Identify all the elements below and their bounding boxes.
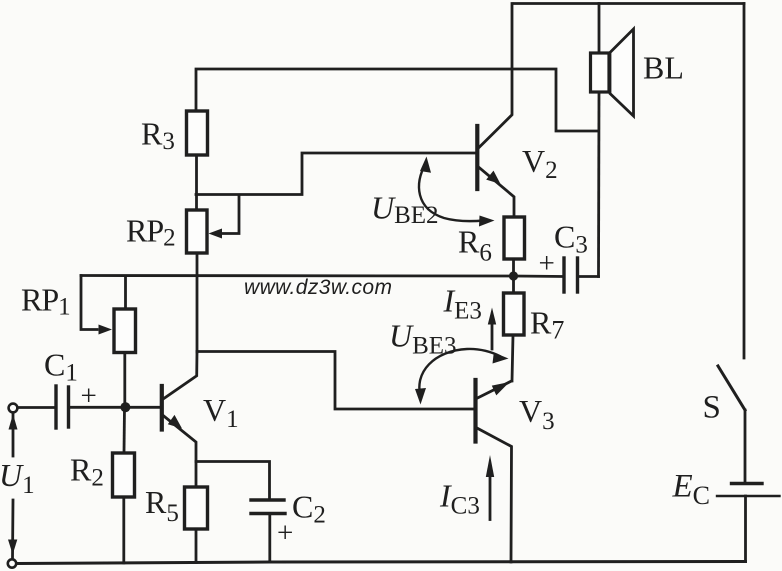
- svg-text:+: +: [539, 248, 555, 280]
- arc arrow UBE3 bottom: [415, 388, 426, 405]
- svg-text:U1: U1: [0, 457, 35, 499]
- wire C2 bottom to rail: [268, 514, 271, 562]
- wire bottom ground rail: [17, 562, 746, 564]
- svg-text:EC: EC: [672, 469, 711, 511]
- wire speaker top stub: [598, 4, 601, 54]
- svg-text:BL: BL: [643, 50, 684, 86]
- svg-text:UBE3: UBE3: [389, 318, 457, 360]
- wire long mid rail RP1 to C3: [81, 276, 563, 277]
- node dot R6 R7 C3: [509, 271, 518, 280]
- svg-text:R6: R6: [458, 224, 492, 267]
- arc arrow UBE2 right: [479, 216, 495, 227]
- svg-text:UBE2: UBE2: [371, 190, 439, 230]
- svg-text:C3: C3: [554, 219, 588, 259]
- transistor V1 collector: [163, 352, 198, 400]
- svg-text:V2: V2: [522, 143, 558, 184]
- svg-text:C1: C1: [44, 347, 78, 387]
- arc UBE2: [419, 163, 484, 221]
- input terminal bottom: [8, 559, 16, 567]
- wire R3 bottom to RP2 top: [195, 155, 198, 210]
- wiper arrow RP1: [99, 325, 113, 335]
- arc arrow UBE2 top: [420, 157, 431, 173]
- wire V1 emitter to C2: [196, 462, 270, 500]
- wire right branch upper (rail to switch): [743, 4, 746, 359]
- wiper arrow RP2: [209, 229, 223, 239]
- svg-text:RP2: RP2: [126, 213, 175, 252]
- emitter arrow V3: [492, 382, 510, 395]
- transistor V3 collector: [476, 428, 512, 563]
- transistor V1 base bar: [160, 386, 164, 430]
- wire input to C1: [18, 406, 55, 409]
- wire U1 source upper: [12, 413, 15, 457]
- resistor R7: [504, 293, 525, 335]
- transistor V2 collector: [479, 4, 512, 148]
- arrow current IC3: [486, 455, 494, 520]
- capacitor C1: [56, 386, 69, 428]
- wire R3 top to step junction: [196, 69, 597, 131]
- svg-text:www.dz3w.com: www.dz3w.com: [244, 276, 392, 299]
- battery EC plate long: [717, 495, 780, 497]
- wire V2 base to RP2 junction: [196, 153, 476, 195]
- transistor V3 base bar: [473, 380, 477, 442]
- arc arrow UBE3 right: [493, 353, 509, 364]
- wire RP1 top terminal: [124, 276, 127, 309]
- wire R6 bottom through node to R7 top: [512, 259, 515, 293]
- svg-text:+: +: [81, 380, 97, 412]
- resistor R3: [187, 111, 208, 155]
- svg-text:R3: R3: [141, 116, 175, 156]
- emitter arrow V1: [168, 415, 182, 429]
- node dot input: [120, 402, 130, 412]
- wire R7 bottom to V3 emitter: [512, 335, 513, 381]
- resistor R5: [185, 487, 208, 529]
- svg-text:IC3: IC3: [439, 478, 480, 520]
- wire V1 collector junction to V3 base: [197, 352, 475, 410]
- svg-text:RP1: RP1: [21, 282, 70, 321]
- potentiometer RP2: [187, 210, 208, 253]
- potentiometer RP1: [114, 309, 136, 353]
- svg-text:S: S: [703, 390, 721, 426]
- svg-text:V3: V3: [519, 393, 555, 435]
- transistor V2 emitter: [479, 167, 514, 217]
- speaker BL: [591, 29, 634, 116]
- wire R2 bottom to rail: [122, 497, 125, 563]
- wire switch to battery: [744, 410, 747, 482]
- arc UBE3: [419, 349, 500, 398]
- svg-text:IE3: IE3: [443, 283, 482, 325]
- wire node to R2: [123, 407, 126, 453]
- svg-text:V1: V1: [203, 392, 239, 433]
- arrow current IE3: [488, 308, 496, 350]
- wire U1 source lower: [11, 500, 14, 559]
- wire speaker bottom to C3 node: [597, 92, 600, 277]
- wire RP1 bottom to node: [123, 353, 126, 408]
- wire mid rail corner to RP1 wiper: [81, 276, 97, 330]
- svg-text:+: +: [277, 517, 293, 549]
- wire C3 right plate to speaker line: [578, 275, 599, 278]
- input terminal top: [9, 404, 18, 413]
- svg-text:R2: R2: [70, 452, 104, 492]
- wire R5 bottom to rail: [195, 529, 198, 563]
- arrow U1 up: [9, 414, 18, 430]
- switch S: [718, 366, 745, 410]
- transistor V2 base bar: [475, 126, 479, 189]
- wire C1 to node: [70, 406, 160, 409]
- capacitor C2: [251, 500, 285, 514]
- transistor V1 emitter: [163, 415, 197, 487]
- resistor R2: [113, 453, 135, 497]
- svg-text:R5: R5: [145, 484, 179, 527]
- wire RP2 wiper riser: [221, 195, 239, 234]
- svg-text:C2: C2: [292, 489, 326, 529]
- wire RP2 bottom to V1 collector junction: [196, 253, 199, 352]
- wire battery to ground rail: [744, 496, 747, 562]
- emitter arrow V2: [486, 171, 500, 184]
- svg-text:R7: R7: [530, 305, 564, 345]
- transistor V3 emitter: [476, 381, 512, 399]
- resistor R6: [504, 217, 525, 259]
- wire top supply rail: [514, 2, 744, 5]
- arrow U1 down: [8, 540, 17, 555]
- capacitor C3: [564, 258, 578, 292]
- battery EC plate short: [732, 482, 763, 485]
